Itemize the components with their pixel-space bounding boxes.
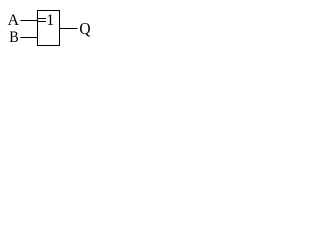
svg-text:Q: Q bbox=[79, 19, 90, 38]
svg-text:1: 1 bbox=[46, 12, 54, 29]
svg-text:B: B bbox=[9, 29, 18, 46]
svg-text:A: A bbox=[8, 12, 20, 29]
